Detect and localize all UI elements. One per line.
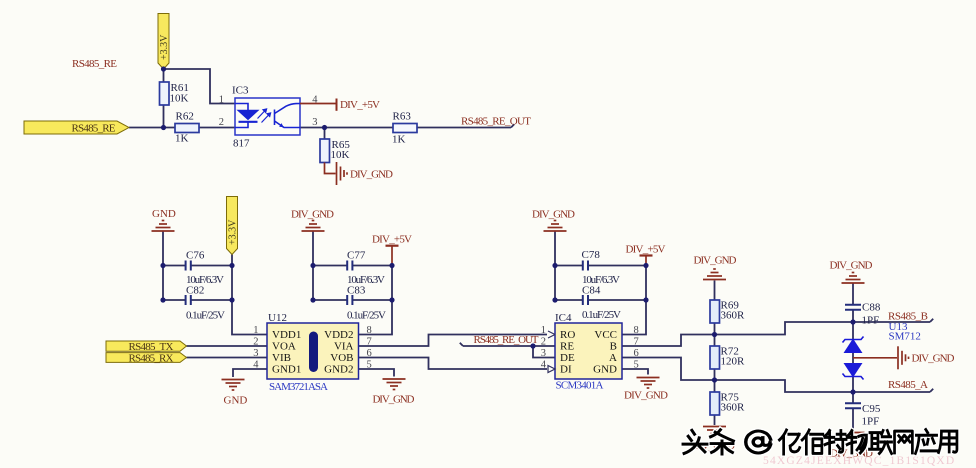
- power bar DIV_+5V (above U12 pin8): [386, 246, 399, 266]
- svg-text:5: 5: [367, 360, 372, 371]
- svg-text:120R: 120R: [721, 356, 746, 368]
- wire RS485_TX flag to U12 pin2: [187, 345, 268, 347]
- wire U12 pin6 to IC4 DI: [359, 358, 548, 370]
- svg-text:8: 8: [367, 325, 372, 336]
- ground DIV_GND (below R75, behind watermark): [703, 427, 726, 438]
- capacitor C78: [583, 261, 588, 271]
- resistor R62: [175, 124, 199, 133]
- U12 pin numbers left: [253, 325, 259, 371]
- svg-text:6: 6: [367, 348, 372, 359]
- svg-text:RS485_TX: RS485_TX: [129, 341, 174, 353]
- svg-text:GND1: GND1: [272, 364, 301, 376]
- wire C78 C84 right to DIV_+5V rail: [587, 266, 646, 301]
- ground DIV_GND (above C78): [544, 221, 567, 232]
- svg-text:2: 2: [541, 337, 546, 348]
- ground DIV_GND (above C77): [302, 221, 325, 232]
- svg-text:6: 6: [634, 348, 639, 359]
- wire TVS centre tap to DIV_GND: [853, 357, 897, 359]
- TVS diode U13 top half: [843, 337, 864, 353]
- ground DIV_GND (below U12 pin5): [383, 379, 406, 390]
- wire IC4 pin6 A to divider: [622, 358, 933, 393]
- svg-text:C82: C82: [186, 285, 204, 297]
- svg-text:C84: C84: [582, 285, 601, 297]
- IC4 pin numbers right: [634, 325, 639, 371]
- svg-text:RS485_RE_OUT: RS485_RE_OUT: [461, 116, 531, 128]
- power port +3.3V (top): [158, 14, 169, 70]
- IC IC4 body: [555, 323, 622, 379]
- svg-text:DIV_+5V: DIV_+5V: [372, 234, 412, 246]
- svg-text:3: 3: [312, 117, 317, 128]
- svg-text:U12: U12: [268, 312, 287, 324]
- svg-text:RS485_RE_OUT: RS485_RE_OUT: [474, 334, 539, 346]
- svg-text:VCC: VCC: [594, 329, 617, 341]
- svg-text:360R: 360R: [721, 310, 746, 322]
- resistor R63: [393, 124, 417, 133]
- wire DIV_GND rail to C78 C84: [555, 232, 582, 301]
- resistor R65: [320, 139, 330, 163]
- svg-text:1: 1: [253, 325, 258, 336]
- svg-text:RS485_RE: RS485_RE: [72, 123, 116, 135]
- wire +3.3V stem to RS485_RE node: [163, 69, 165, 128]
- capacitor C76: [186, 261, 191, 271]
- ground DIV_GND (below IC4 pin5): [637, 378, 660, 389]
- wire IC3 pin3 to R63 to RS485_RE_OUT: [300, 124, 514, 127]
- power bar DIV_+5V (IC3 pin4): [300, 99, 337, 111]
- svg-text:5: 5: [634, 360, 639, 371]
- wire R75 to lower DIV_GND: [714, 415, 716, 425]
- svg-text:VOA: VOA: [272, 341, 296, 353]
- wire R69 to R72: [714, 323, 716, 346]
- capacitor C82: [186, 295, 191, 305]
- wire GND rail to C76 C82: [163, 232, 185, 301]
- ground DIV_GND (below R65, rotated): [325, 162, 348, 185]
- svg-text:1PF: 1PF: [862, 315, 880, 327]
- net flag RS485_TX: [106, 341, 187, 351]
- watermark black strokes 头条 @亿佰特物联网应用: [683, 430, 957, 454]
- svg-text:360R: 360R: [721, 402, 746, 414]
- wire RE node to IC4 DE: [533, 346, 555, 358]
- svg-text:DI: DI: [560, 364, 572, 376]
- svg-text:DIV_GND: DIV_GND: [624, 390, 668, 402]
- svg-text:B: B: [610, 341, 617, 353]
- IC4 pin numbers left: [541, 325, 547, 371]
- wire U12 pin7 to IC4 RO: [359, 335, 548, 347]
- svg-text:IC4: IC4: [555, 312, 572, 324]
- IC U12 isolation bar: [309, 332, 318, 373]
- resistor R61: [160, 82, 170, 105]
- svg-text:0.1uF/25V: 0.1uF/25V: [347, 310, 386, 322]
- capacitor C83: [347, 295, 352, 305]
- wire U12 pin4 to GND: [233, 369, 267, 377]
- svg-text:C76: C76: [186, 250, 205, 262]
- ground DIV_GND (right of U13, rotated): [898, 346, 909, 369]
- svg-text:7: 7: [367, 337, 372, 348]
- svg-text:4: 4: [541, 360, 547, 371]
- ground DIV_GND (below C95, behind watermark): [842, 433, 865, 444]
- svg-text:DIV_GND: DIV_GND: [694, 255, 737, 267]
- ground DIV_GND (above C88): [842, 273, 865, 284]
- ground GND (above C76): [152, 221, 175, 232]
- svg-text:GND: GND: [152, 208, 176, 220]
- svg-text:10K: 10K: [331, 149, 350, 161]
- wire RS485_RX flag to U12 pin3: [187, 357, 268, 359]
- ground GND (below U12 pin4): [222, 380, 245, 391]
- svg-text:VOB: VOB: [330, 352, 353, 364]
- wire DIV_GND to C88: [852, 284, 854, 305]
- svg-text:DIV_GND: DIV_GND: [912, 353, 955, 365]
- wire U12 pin5 to DIV_GND: [359, 369, 395, 377]
- svg-text:C83: C83: [347, 285, 366, 297]
- capacitor C84: [583, 295, 588, 305]
- wire RS485_RE_OUT to IC4 RE: [460, 343, 555, 346]
- svg-text:54XGZ4JEEXHWQC_1B1S1QXD: 54XGZ4JEEXHWQC_1B1S1QXD: [763, 455, 955, 467]
- net flag RS485_RX: [106, 353, 187, 363]
- svg-text:+3.3V: +3.3V: [228, 219, 239, 245]
- wire C88 to B line: [852, 310, 854, 322]
- svg-text:3: 3: [253, 348, 258, 359]
- resistor R72: [710, 346, 720, 369]
- svg-text:4: 4: [312, 95, 318, 106]
- IC4 pin1 RO output arrow: [548, 331, 555, 338]
- svg-text:GND: GND: [593, 364, 617, 376]
- wire RS485_RE flag to R62 to IC3 pin2: [129, 127, 235, 129]
- svg-text:+3.3V: +3.3V: [159, 34, 170, 60]
- svg-text:RO: RO: [560, 329, 575, 341]
- svg-text:RE: RE: [560, 341, 574, 353]
- svg-text:R63: R63: [393, 111, 412, 123]
- svg-text:VIA: VIA: [334, 341, 354, 353]
- svg-text:7: 7: [634, 337, 639, 348]
- svg-text:DIV_GND: DIV_GND: [291, 209, 334, 221]
- svg-text:C78: C78: [582, 249, 601, 261]
- resistor R75: [710, 392, 720, 415]
- svg-text:C77: C77: [347, 250, 366, 262]
- wire IC4 pin5 to DIV_GND: [622, 369, 648, 375]
- svg-text:VDD2: VDD2: [324, 329, 353, 341]
- wire DIV_GND to R69: [714, 281, 716, 301]
- wire C77 C83 right to DIV_+5V rail: [352, 266, 392, 301]
- wire A line to C95: [852, 392, 854, 403]
- capacitor C95: [845, 403, 861, 408]
- wire DIV_+5V rail down to IC4 pin8: [622, 266, 646, 335]
- svg-text:VDD1: VDD1: [272, 329, 301, 341]
- TVS diode U13 bottom half: [843, 364, 864, 380]
- svg-text:RS485_RE: RS485_RE: [72, 58, 117, 70]
- svg-text:1K: 1K: [175, 133, 189, 145]
- power bar DIV_+5V (above IC4 pin8): [640, 256, 653, 267]
- svg-text:2: 2: [219, 117, 224, 128]
- capacitor C77: [347, 261, 352, 271]
- wire IC4 pin7 B to divider: [622, 319, 933, 346]
- svg-text:GND2: GND2: [324, 364, 353, 376]
- svg-text:1PF: 1PF: [862, 416, 880, 428]
- svg-text:0.1uF/25V: 0.1uF/25V: [186, 310, 225, 322]
- wire DIV_+5V rail down to U12 pin8: [359, 266, 393, 335]
- svg-text:DIV_+5V: DIV_+5V: [626, 244, 666, 256]
- net flag RS485_RE: [24, 121, 129, 134]
- svg-text:0.1uF/25V: 0.1uF/25V: [582, 309, 621, 321]
- svg-text:SM712: SM712: [889, 331, 921, 343]
- svg-text:DIV_+5V: DIV_+5V: [340, 99, 380, 111]
- opto-coupler IC3 light arrows: [258, 109, 271, 123]
- wire TVS vertical: [852, 322, 854, 392]
- svg-text:C88: C88: [862, 302, 881, 314]
- svg-text:2: 2: [253, 337, 258, 348]
- wire +3.3V node to IC3 pin1: [164, 69, 236, 104]
- svg-text:3: 3: [541, 348, 546, 359]
- svg-text:1K: 1K: [392, 134, 406, 146]
- IC4 pin4 DI input arrow: [548, 366, 555, 373]
- wire DIV_GND rail to C77 C83: [313, 232, 347, 301]
- svg-text:1: 1: [219, 95, 224, 106]
- svg-text:IC3: IC3: [232, 85, 249, 97]
- svg-text:10K: 10K: [170, 93, 189, 105]
- U12 pin numbers right: [367, 325, 372, 371]
- svg-text:VIB: VIB: [272, 352, 291, 364]
- opto-coupler IC3 box: [235, 98, 300, 135]
- watermark white halo 头条 @亿佰特物联网应用: [683, 430, 957, 454]
- svg-text:DE: DE: [560, 352, 575, 364]
- svg-text:R62: R62: [176, 111, 194, 123]
- wire C76 C82 right to +3.3V rail: [190, 266, 232, 301]
- svg-text:8: 8: [634, 325, 639, 336]
- svg-text:C95: C95: [862, 403, 881, 415]
- svg-text:GND: GND: [224, 395, 248, 407]
- svg-text:RS485_RX: RS485_RX: [129, 352, 174, 364]
- svg-text:SCM3401A: SCM3401A: [556, 380, 604, 392]
- svg-text:A: A: [609, 352, 617, 364]
- wire R65 top: [324, 128, 326, 140]
- svg-text:SAM3721ASA: SAM3721ASA: [269, 381, 328, 393]
- wire +3.3V rail down to U12 pin1: [232, 255, 267, 335]
- svg-text:4: 4: [253, 360, 259, 371]
- svg-text:DIV_GND: DIV_GND: [532, 209, 575, 221]
- resistor R69: [710, 300, 720, 323]
- opto-coupler IC3 LED: [235, 104, 258, 128]
- svg-text:817: 817: [233, 138, 250, 150]
- svg-text:DIV_GND: DIV_GND: [830, 260, 873, 272]
- wire R72 to R75: [714, 369, 716, 392]
- power port +3.3V (above U12): [227, 197, 238, 255]
- wire C95 to lower DIV_GND: [852, 408, 854, 431]
- opto-coupler IC3 phototransistor: [275, 104, 301, 128]
- svg-text:DIV_GND: DIV_GND: [373, 394, 415, 406]
- capacitor C88: [845, 305, 861, 310]
- svg-text:DIV_GND: DIV_GND: [350, 169, 393, 181]
- IC U12 body: [267, 323, 359, 379]
- svg-text:RS485_A: RS485_A: [888, 379, 928, 391]
- ground DIV_GND (above R69): [703, 269, 726, 280]
- svg-text:1: 1: [541, 325, 546, 336]
